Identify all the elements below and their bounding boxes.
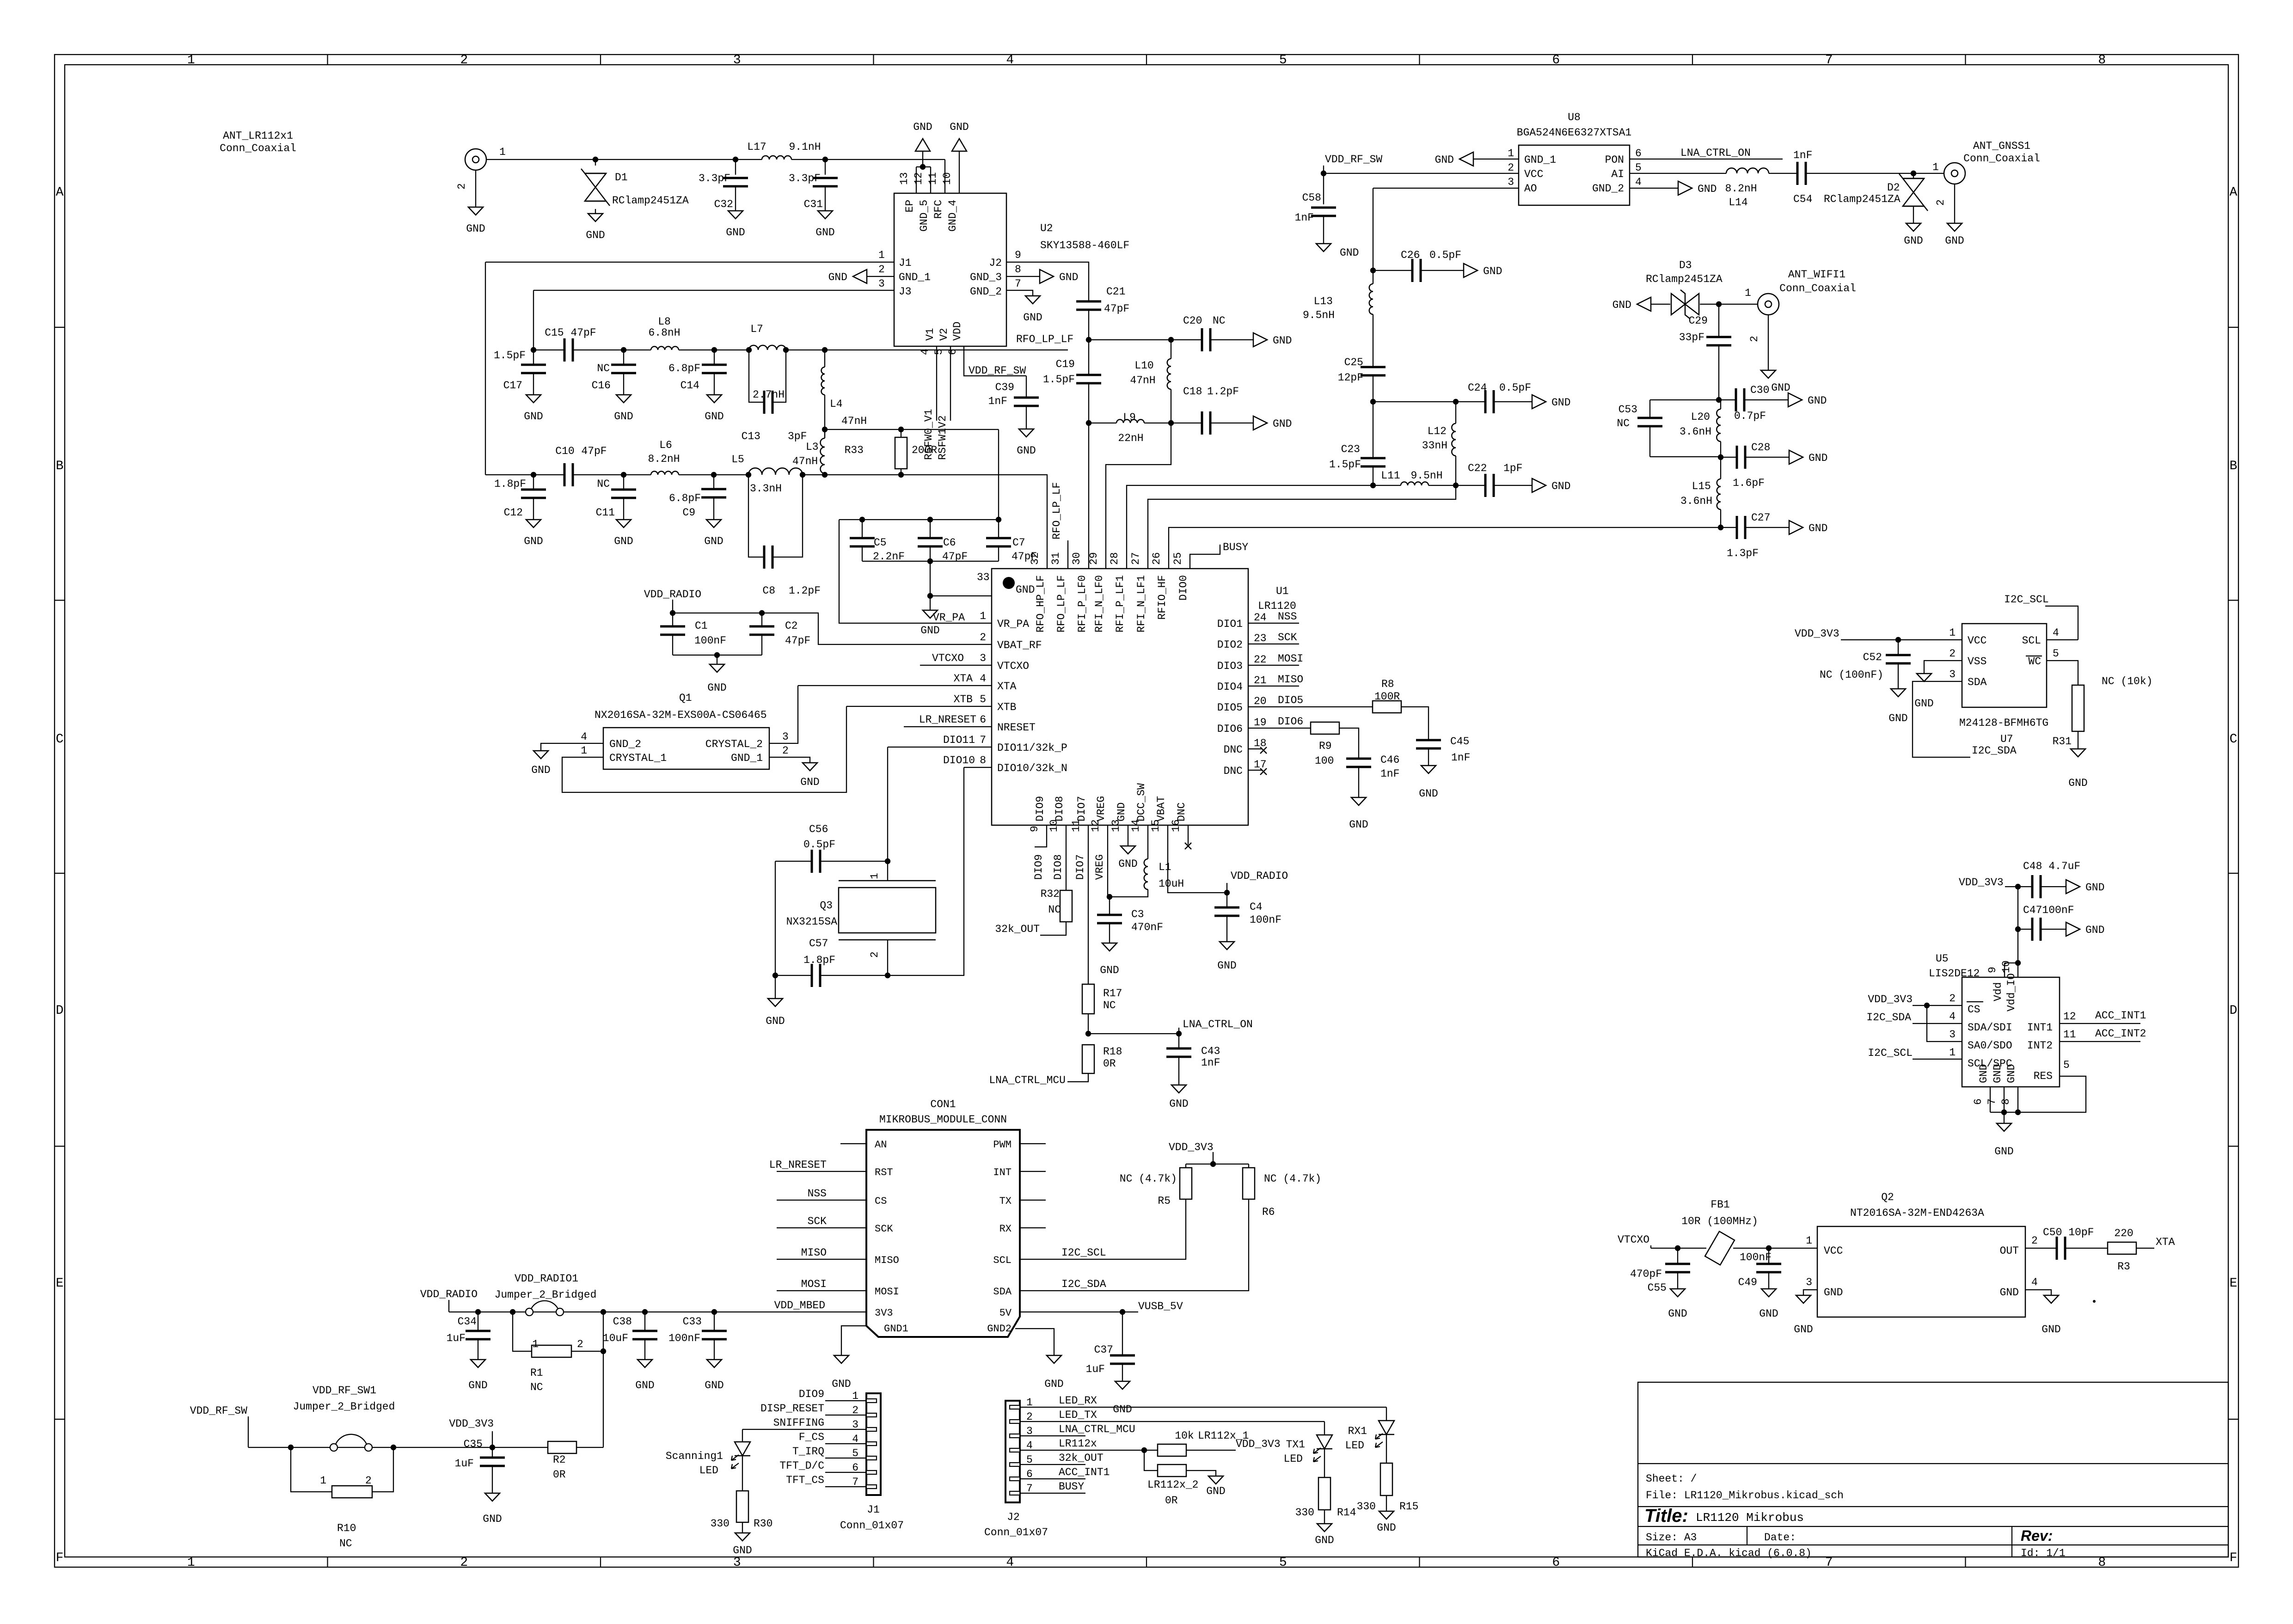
ground under C52 (1891, 689, 1906, 697)
svg-text:GND2: GND2 (987, 1323, 1012, 1335)
wire U8 AO going left (1373, 188, 1519, 189)
svg-text:GND: GND (800, 776, 819, 788)
hier label GND at C20 (1253, 333, 1267, 347)
pin stub CON1 PWM (1020, 1143, 1046, 1144)
svg-text:VDD_3V3: VDD_3V3 (449, 1418, 494, 1430)
node C16/L8 (621, 347, 626, 353)
svg-text:32: 32 (1029, 552, 1041, 565)
svg-text:NC: NC (530, 1381, 543, 1393)
svg-text:SCK: SCK (875, 1223, 893, 1235)
svg-text:5: 5 (2053, 648, 2059, 660)
svg-text:GND: GND (1888, 712, 1907, 724)
svg-text:GND: GND (586, 229, 605, 241)
wire C3 top lead (1109, 897, 1110, 915)
capacitor C27 1.3pF (1736, 516, 1738, 539)
ground under C55 (1670, 1289, 1685, 1297)
svg-text:L15: L15 (1692, 480, 1711, 492)
svg-text:4: 4 (980, 673, 986, 685)
ground under C45 (1421, 766, 1436, 773)
wire SNIFFING to LED (742, 1429, 743, 1442)
svg-text:6.8nH: 6.8nH (648, 327, 680, 339)
resistor LR112x_1 10k (1158, 1444, 1186, 1456)
inductor L7 2.7nH (749, 345, 786, 350)
node R33 top (898, 427, 904, 432)
svg-text:VDD_3V3: VDD_3V3 (1795, 628, 1839, 640)
svg-text:10: 10 (2000, 960, 2012, 973)
svg-text:R14: R14 (1337, 1507, 1356, 1519)
ground under C32 (728, 211, 743, 219)
wire 32k_OUT stub (1020, 1464, 1085, 1465)
wire C1/C2 bottom rail (673, 655, 762, 656)
svg-text:J1: J1 (867, 1504, 880, 1516)
svg-text:10k: 10k (1175, 1430, 1194, 1442)
wire C37 to gnd (1122, 1364, 1123, 1381)
svg-text:NC: NC (597, 362, 610, 374)
svg-text:VREG: VREG (1094, 854, 1106, 880)
svg-text:4: 4 (2031, 1276, 2038, 1288)
svg-text:2.7nH: 2.7nH (753, 389, 785, 401)
capacitor C23 1.5pF (1361, 457, 1386, 460)
node C48 (2015, 884, 2021, 889)
svg-text:VCC: VCC (1524, 168, 1543, 180)
svg-text:J2: J2 (989, 257, 1002, 269)
capacitor C35 1uF (480, 1457, 505, 1459)
svg-text:ACC_INT1: ACC_INT1 (1059, 1466, 1110, 1478)
svg-text:F: F (2230, 1551, 2238, 1565)
wire L7 to L4/RFO_LP_LF (786, 349, 825, 350)
svg-text:2: 2 (1748, 336, 1760, 342)
svg-text:GND: GND (1349, 819, 1368, 831)
svg-text:C21: C21 (1106, 286, 1125, 298)
wire ACC_INT1 (2060, 1023, 2140, 1024)
svg-text:GND: GND (1809, 452, 1827, 464)
svg-text:1.8pF: 1.8pF (494, 478, 526, 490)
svg-text:C54: C54 (1793, 193, 1812, 205)
svg-text:11: 11 (927, 172, 939, 185)
svg-text:100nF: 100nF (694, 635, 726, 647)
svg-text:C24: C24 (1468, 382, 1487, 394)
svg-text:LNA_CTRL_MCU: LNA_CTRL_MCU (989, 1074, 1066, 1086)
wire C56 row (775, 861, 812, 862)
node C47 (2015, 926, 2021, 932)
wire Q1 CRYSTAL_2 to XTA (769, 686, 798, 743)
svg-text:RFI_P_LF0: RFI_P_LF0 (1076, 575, 1088, 632)
svg-text:6: 6 (1635, 147, 1642, 159)
svg-text:L11: L11 (1381, 470, 1400, 482)
R10 parallel loop (291, 1447, 332, 1492)
svg-text:NC: NC (1048, 904, 1061, 916)
svg-text:C46: C46 (1380, 754, 1399, 766)
svg-text:3.6nH: 3.6nH (1680, 495, 1712, 507)
svg-text:D3: D3 (1679, 259, 1692, 271)
svg-text:L14: L14 (1729, 196, 1747, 208)
svg-text:GND: GND (1273, 418, 1292, 430)
node L12 top (1453, 399, 1459, 404)
svg-text:L6: L6 (659, 439, 672, 451)
svg-text:VDD_3V3: VDD_3V3 (1959, 876, 2004, 889)
wire D3 to ANT_WIFI (1700, 304, 1758, 305)
svg-text:RX: RX (999, 1223, 1012, 1235)
svg-text:VREG: VREG (1095, 796, 1107, 821)
svg-text:LED_RX: LED_RX (1059, 1395, 1097, 1407)
svg-text:BUSY: BUSY (1059, 1481, 1084, 1493)
node L15/C27/RFIO_HF (1718, 525, 1723, 530)
node C20/L10 (1168, 337, 1174, 343)
svg-text:DNC: DNC (1224, 765, 1243, 777)
svg-text:C23: C23 (1341, 443, 1360, 455)
node L5 left (746, 472, 751, 478)
svg-text:NC (10k): NC (10k) (2102, 675, 2152, 687)
IC U1 LR1120 (992, 569, 1248, 825)
svg-text:GND: GND (1992, 1064, 2004, 1083)
resistor LR112x_2 0R (1158, 1465, 1186, 1477)
ground under C4 (1220, 942, 1234, 950)
wire Q1 GND_1 to gnd (769, 757, 810, 763)
node gnd tap C1C2 (714, 652, 720, 658)
node Vdd/Vdd_IO (2015, 960, 2021, 966)
svg-text:6: 6 (1552, 1556, 1560, 1570)
resistor R8 100R (1373, 701, 1401, 713)
capacitor C29 33pF (1706, 336, 1731, 338)
svg-text:1nF: 1nF (1380, 768, 1399, 780)
svg-text:GND: GND (2042, 1324, 2060, 1336)
wire C35 to gnd (492, 1466, 493, 1493)
node L11/L12/C22 (1453, 483, 1459, 488)
wire DIO8 to R32 (1066, 825, 1067, 890)
svg-text:GND: GND (1118, 858, 1137, 870)
svg-text:VTCXO: VTCXO (1618, 1234, 1649, 1246)
wire GND tap down (930, 561, 931, 596)
svg-text:6.8pF: 6.8pF (668, 362, 700, 374)
DNC pin16 stub (1188, 825, 1189, 845)
svg-text:INT2: INT2 (2027, 1040, 2053, 1052)
IC Q1 NX2016SA crystal (603, 728, 769, 769)
stray dot artifact (2093, 1300, 2096, 1303)
C53 branch to left (1650, 399, 1719, 400)
wire U8 GND_1 (1473, 159, 1519, 159)
wire VDD_RF_SW to U8 VCC (1324, 173, 1519, 174)
wire R17 to node (1088, 1014, 1089, 1034)
svg-text:GND_5: GND_5 (918, 200, 930, 232)
resistor R17 NC (1082, 984, 1094, 1014)
svg-text:DNC: DNC (1224, 744, 1243, 756)
inductor L12 33nH (1452, 423, 1456, 456)
svg-text:D2: D2 (1887, 182, 1900, 194)
wire ANT_GNSS pin2 (1954, 184, 1955, 223)
wire L4 bottom lead (824, 395, 825, 429)
svg-text:9: 9 (1986, 967, 1999, 973)
svg-text:C47100nF: C47100nF (2023, 904, 2074, 916)
wire C33 top lead (714, 1312, 715, 1331)
svg-text:1: 1 (532, 1338, 539, 1350)
svg-text:C19: C19 (1056, 358, 1075, 370)
svg-text:DCC_SW: DCC_SW (1135, 783, 1147, 821)
hier label GND at U2 pin8 (1040, 270, 1054, 283)
svg-text:J2: J2 (1007, 1511, 1020, 1523)
svg-text:SDA/SDI: SDA/SDI (1968, 1022, 2012, 1034)
svg-text:NC: NC (1103, 999, 1116, 1011)
svg-text:8: 8 (980, 754, 986, 766)
U7 SDA to I2C_SDA label (1913, 681, 1970, 757)
svg-text:C: C (56, 732, 64, 747)
svg-text:Conn_Coaxial: Conn_Coaxial (1963, 153, 2040, 165)
svg-text:RST: RST (875, 1167, 893, 1178)
svg-text:1.2pF: 1.2pF (789, 585, 821, 597)
wire to C43 (1088, 1033, 1179, 1034)
hier label GND at C28 (1789, 450, 1803, 464)
svg-text:DIO2: DIO2 (1217, 639, 1243, 651)
wire C31 bottom lead (825, 186, 826, 211)
wire CON1 CS (777, 1200, 866, 1201)
svg-text:A: A (2230, 185, 2238, 200)
resistor R9 100 (1311, 722, 1339, 734)
svg-text:R3: R3 (2117, 1261, 2130, 1273)
svg-text:Date:: Date: (1764, 1532, 1796, 1544)
svg-text:5: 5 (2063, 1059, 2070, 1071)
wire J3 corner down to chain (533, 290, 534, 350)
svg-text:DIO9: DIO9 (799, 1388, 824, 1400)
svg-text:10R (100MHz): 10R (100MHz) (1681, 1215, 1758, 1227)
svg-text:SCK: SCK (1278, 631, 1297, 643)
capacitor C15 47pF (564, 338, 566, 362)
svg-text:19: 19 (1254, 717, 1267, 729)
coax connector ANT_GNSS1 symbol (1944, 163, 1965, 184)
svg-text:1.5pF: 1.5pF (1329, 459, 1361, 471)
svg-text:3: 3 (733, 53, 741, 67)
svg-text:R17: R17 (1103, 987, 1122, 999)
wire U2 GND_2 (1006, 290, 1033, 296)
wire VTCXO label stub (920, 665, 992, 666)
pin stub CON1 TX (1020, 1200, 1046, 1201)
svg-text:V2: V2 (938, 328, 950, 341)
svg-text:10uF: 10uF (603, 1332, 628, 1344)
svg-text:RClamp2451ZA: RClamp2451ZA (1824, 193, 1901, 205)
svg-text:3: 3 (1508, 176, 1514, 188)
no-connect pin16 (1185, 843, 1191, 849)
connector J1 Conn_01x07 body (866, 1393, 881, 1495)
svg-text:Vdd_IO: Vdd_IO (2005, 973, 2017, 1011)
wire LR112x to resistors (1020, 1450, 1158, 1451)
TVS D2 (1913, 173, 1914, 178)
wire U1 pin31 RFO_LP_LF stub (1067, 540, 1068, 569)
svg-text:GND: GND (832, 1378, 851, 1390)
wire C53 top lead (1649, 400, 1650, 418)
svg-text:C28: C28 (1751, 441, 1770, 453)
LED RX1 (1379, 1421, 1394, 1434)
node C34 (475, 1309, 481, 1315)
svg-text:GND: GND (707, 682, 726, 694)
wire Q1 GND_2 to gnd (541, 743, 603, 751)
wire C24 to GND label (1494, 401, 1532, 402)
svg-text:1: 1 (1745, 287, 1751, 299)
svg-text:SA0/SDO: SA0/SDO (1968, 1040, 2012, 1052)
svg-text:Conn_Coaxial: Conn_Coaxial (220, 142, 296, 154)
svg-text:VDD_RADIO1: VDD_RADIO1 (515, 1273, 578, 1285)
J2 pin 2 LED_TX (1010, 1420, 1020, 1423)
svg-text:1uF: 1uF (447, 1332, 466, 1344)
wire RFI_P_LF0 from U1 pin30 (done above), RFI_N_LF0 pin29 (1106, 423, 1171, 569)
svg-text:1: 1 (1949, 1047, 1956, 1059)
svg-text:XTB: XTB (997, 701, 1016, 713)
svg-text:GND: GND (1914, 698, 1933, 710)
resistor R2 0R (548, 1441, 576, 1453)
wire LR_NRESET (904, 726, 992, 727)
svg-text:47nH: 47nH (1130, 374, 1155, 386)
svg-text:5: 5 (1279, 1556, 1287, 1570)
resistor R10 NC (332, 1486, 372, 1498)
wire C49 top lead (1768, 1248, 1769, 1264)
svg-text:GND: GND (524, 411, 543, 423)
wire U2 J2 to C21 (1006, 262, 1089, 301)
svg-text:AN: AN (875, 1139, 887, 1151)
no-connect pin18 (1260, 747, 1267, 754)
wire C9 to gnd (713, 497, 714, 520)
wire Vdd pin9 (2004, 963, 2005, 977)
capacitor C25 12pF (1361, 366, 1386, 368)
svg-text:R6: R6 (1262, 1206, 1275, 1218)
svg-text:VR_PA: VR_PA (933, 612, 965, 624)
svg-text:LR112x: LR112x (1059, 1438, 1097, 1450)
svg-text:GND: GND (1273, 335, 1292, 347)
svg-text:R32: R32 (1041, 888, 1060, 900)
svg-text:NX2016SA-32M-EXS00A-CS06465: NX2016SA-32M-EXS00A-CS06465 (595, 709, 767, 721)
wire C10 to C11 (573, 474, 624, 475)
ground under ANT_LR112x1 (468, 207, 483, 215)
ground at Q1 pin2 (803, 763, 817, 771)
wire C26 to GND label (1421, 270, 1464, 271)
svg-text:28: 28 (1109, 552, 1121, 565)
svg-text:C18: C18 (1183, 386, 1202, 398)
svg-text:J1: J1 (899, 257, 912, 269)
svg-text:C56: C56 (809, 823, 828, 835)
svg-text:GND: GND (1419, 788, 1438, 800)
svg-text:LR1120 Mikrobus: LR1120 Mikrobus (1696, 1511, 1804, 1525)
svg-text:File: LR1120_Mikrobus.kicad_sc: File: LR1120_Mikrobus.kicad_sch (1646, 1489, 1844, 1501)
Q2 GND pin3 (1803, 1290, 1817, 1295)
svg-text:100nF: 100nF (1740, 1251, 1772, 1263)
svg-text:12: 12 (913, 172, 925, 185)
svg-text:470nF: 470nF (1131, 921, 1163, 933)
svg-text:MISO: MISO (875, 1255, 899, 1266)
svg-text:6: 6 (1552, 53, 1560, 67)
svg-text:DIO8: DIO8 (1052, 854, 1064, 880)
svg-text:GND: GND (1113, 1403, 1132, 1416)
hier label GND at U2 pin2 (853, 270, 867, 283)
wire C54 to antenna GNSS (1806, 173, 1913, 174)
svg-text:2: 2 (869, 951, 881, 958)
inductor L13 9.5nH (1369, 284, 1373, 314)
pin2 ANT_LR112x1 (475, 170, 476, 207)
wire CON1 SCK (777, 1227, 866, 1228)
wire Q3 pin2 row to DIO10 (888, 767, 964, 975)
svg-text:R5: R5 (1158, 1195, 1171, 1207)
svg-text:C43: C43 (1201, 1045, 1220, 1057)
wire C17 to gnd (533, 373, 534, 395)
ground under C49 (1761, 1289, 1776, 1297)
wire down to C47 (2017, 887, 2018, 929)
wire L17 to RFC riser (791, 159, 945, 160)
svg-text:ANT_WIFI1: ANT_WIFI1 (1788, 269, 1845, 281)
svg-text:RFI_P_LF1: RFI_P_LF1 (1114, 575, 1126, 632)
wire LED_TX to TX1 (1020, 1421, 1324, 1422)
svg-text:1: 1 (1508, 147, 1514, 159)
capacitor C9 6.8pF (701, 488, 726, 490)
C27 series to GND (1721, 527, 1737, 528)
svg-text:4: 4 (1949, 1011, 1956, 1023)
svg-text:C9: C9 (682, 507, 695, 519)
svg-text:VCC: VCC (1968, 635, 1986, 647)
wire DIO6 to R9 (1248, 728, 1311, 729)
svg-text:8: 8 (2098, 1556, 2106, 1570)
wire RFC up to antenna net (944, 159, 945, 193)
svg-text:GND: GND (1994, 1146, 2013, 1158)
capacitor C21 47pF (1076, 300, 1101, 303)
svg-text:1uF: 1uF (455, 1458, 474, 1470)
wire C3 to gnd (1109, 923, 1110, 943)
svg-text:MISO: MISO (801, 1247, 827, 1259)
wire ACC_INT2 (2060, 1041, 2140, 1042)
ground under D2 (1906, 223, 1921, 231)
svg-text:GND_2: GND_2 (609, 738, 641, 750)
svg-text:GND: GND (1808, 395, 1827, 407)
svg-text:25: 25 (1172, 552, 1184, 565)
wire I2C_SCL to U7 SCL (2045, 606, 2078, 640)
svg-text:47nH: 47nH (792, 455, 818, 467)
svg-text:3: 3 (1949, 1029, 1956, 1041)
svg-text:C13: C13 (742, 430, 760, 442)
svg-text:VDD_RADIO: VDD_RADIO (1231, 870, 1288, 882)
svg-text:GND: GND (1100, 964, 1119, 976)
svg-text:1.3pF: 1.3pF (1727, 547, 1759, 559)
svg-text:RES: RES (2034, 1070, 2053, 1082)
wire R33 top lead (901, 429, 901, 437)
wire to C26 (1373, 270, 1412, 271)
wire RSFW0_V1 stub (936, 346, 937, 421)
svg-text:1: 1 (878, 249, 885, 261)
svg-text:R15: R15 (1399, 1501, 1418, 1513)
node R10 right (391, 1445, 396, 1450)
resistor R32 NC (1060, 890, 1072, 922)
svg-text:VDD_RF_SW: VDD_RF_SW (969, 365, 1026, 377)
node L9/L10/C18 (1168, 420, 1174, 426)
wire CON1 SDA to R6 (1020, 1199, 1249, 1291)
svg-text:RSFW1V2: RSFW1V2 (937, 415, 949, 460)
svg-text:C20: C20 (1183, 315, 1202, 327)
node C4/VDD_RADIO (1224, 890, 1230, 895)
title block frame (1638, 1382, 2228, 1557)
wire AO down to C26 node (1373, 188, 1373, 270)
wire C38 to gnd (644, 1339, 645, 1360)
wire R8 to C45 (1401, 707, 1429, 740)
node L3 bottom (822, 472, 828, 478)
svg-text:L4: L4 (830, 398, 843, 410)
svg-text:GND: GND (1612, 299, 1631, 311)
svg-text:TFT_D/C: TFT_D/C (779, 1460, 824, 1472)
svg-text:U2: U2 (1040, 222, 1053, 234)
svg-text:GND: GND (1016, 584, 1035, 596)
svg-text:33nH: 33nH (1422, 440, 1447, 452)
inductor L8 6.8nH (651, 347, 679, 350)
svg-text:9: 9 (1015, 249, 1021, 261)
svg-text:NC: NC (1617, 417, 1630, 429)
ground under D1 (588, 214, 603, 221)
svg-text:VDD_RF_SW: VDD_RF_SW (1325, 153, 1382, 165)
svg-text:NRESET: NRESET (997, 722, 1036, 734)
node C52 (1895, 637, 1901, 643)
svg-text:GND: GND (1904, 235, 1923, 247)
inductor L17 9.1nH (762, 156, 791, 159)
capacitor C30 0.7pF (1735, 388, 1737, 411)
